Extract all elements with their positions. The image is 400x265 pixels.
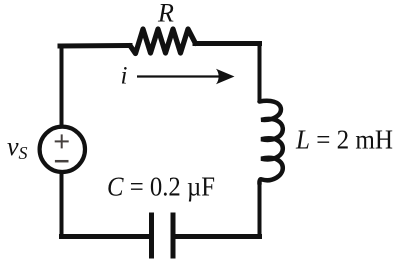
wire right vertical lower [258,183,262,237]
wire left vertical upper [60,45,64,127]
voltage source plus sign [55,134,69,148]
svg-text:L = 2 mH: L = 2 mH [295,125,393,155]
voltage source minus sign [55,160,69,163]
svg-text:i: i [121,63,128,90]
inductor L coil [259,101,282,184]
voltage source vS circle [40,127,85,172]
wire left vertical lower [60,173,64,238]
svg-text:R: R [157,0,174,28]
wire top-right segment [195,41,260,46]
current arrow head [216,69,235,84]
current arrow i shaft [137,75,221,77]
resistor R [130,29,196,54]
svg-text:C = 0.2 µF: C = 0.2 µF [107,172,215,202]
wire right vertical upper [258,42,262,102]
svg-text:vS: vS [7,132,28,163]
capacitor C left plate [149,213,154,259]
wire top-left segment [60,43,130,49]
wire bottom horizontal right segment [173,234,260,239]
wire bottom horizontal left segment [62,234,152,239]
capacitor C right plate [171,213,176,259]
